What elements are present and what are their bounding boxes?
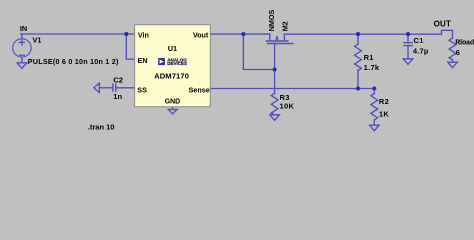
resistor R2 [373, 88, 375, 93]
op-amp U1 : ADM7170 IC body [135, 25, 211, 107]
resistor R1 [357, 34, 359, 44]
ground under R3 [270, 115, 280, 121]
svg-text:1.7k: 1.7k [364, 63, 380, 72]
svg-text:Vin: Vin [138, 30, 149, 39]
svg-text:SS: SS [137, 85, 147, 94]
resistor R3 [271, 93, 278, 115]
ground under C1 [403, 59, 413, 65]
svg-text:R1: R1 [364, 53, 374, 62]
junction dots [124, 32, 410, 91]
svg-text:M2: M2 [281, 21, 290, 31]
svg-text:6: 6 [456, 48, 460, 57]
svg-text:C1: C1 [414, 36, 424, 45]
wire Vout to gate L [243, 34, 274, 69]
ground under IC GND pin [172, 107, 174, 110]
svg-text:Rload: Rload [455, 40, 474, 47]
svg-text:OUT: OUT [434, 19, 452, 28]
Analog Devices logo [158, 58, 187, 66]
svg-text:R2: R2 [379, 97, 389, 106]
svg-text:1n: 1n [113, 92, 122, 101]
svg-text:.tran 10: .tran 10 [88, 123, 115, 132]
svg-text:IN: IN [20, 24, 27, 33]
svg-text:C2: C2 [113, 75, 123, 84]
wire branch to EN [126, 34, 134, 59]
svg-text:V1: V1 [33, 35, 42, 44]
wire Vout rail [210, 33, 269, 35]
svg-text:NMOS: NMOS [267, 10, 276, 32]
transistor M2 (NMOS, rotated) [269, 34, 271, 40]
ground under V1 [17, 63, 27, 69]
capacitor C1 [407, 34, 409, 43]
arrow of M2 body [275, 36, 279, 39]
capacitor C2 [99, 87, 112, 89]
svg-text:GND: GND [165, 99, 180, 106]
svg-text:DEVICES: DEVICES [167, 61, 187, 66]
svg-text:4.7µ: 4.7µ [413, 47, 429, 56]
ground under Rload [448, 62, 458, 67]
voltage source V1 [21, 34, 23, 39]
svg-text:1K: 1K [379, 110, 389, 119]
svg-text:EN: EN [138, 56, 148, 65]
svg-text:PULSE(0 6 0 10n 10n 1 2): PULSE(0 6 0 10n 10n 1 2) [28, 57, 119, 66]
wire gate down through sense to R3 [274, 44, 276, 94]
wire IN to Vin [21, 33, 135, 35]
resistor Rload [449, 38, 456, 60]
wire Sense rail [210, 88, 374, 90]
svg-text:10K: 10K [280, 101, 295, 110]
svg-text:U1: U1 [168, 44, 177, 53]
svg-text:ADM7170: ADM7170 [154, 72, 189, 81]
ground left of C2 (rotated) [94, 83, 100, 93]
svg-text:Vout: Vout [193, 30, 209, 39]
svg-text:Sense: Sense [189, 85, 210, 94]
ground under R2 [370, 125, 380, 131]
